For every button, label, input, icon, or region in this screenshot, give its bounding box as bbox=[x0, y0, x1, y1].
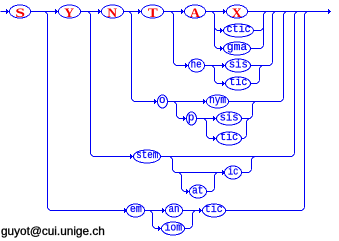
svg-text:o: o bbox=[159, 95, 165, 107]
svg-text:ic: ic bbox=[228, 167, 239, 179]
svg-text:iom: iom bbox=[165, 223, 183, 235]
svg-text:sis: sis bbox=[220, 113, 239, 125]
svg-text:he: he bbox=[191, 60, 202, 72]
svg-text:tic: tic bbox=[220, 132, 238, 144]
svg-text:an: an bbox=[169, 204, 180, 216]
svg-text:stem: stem bbox=[136, 150, 158, 162]
svg-text:S: S bbox=[15, 6, 25, 20]
svg-text:X: X bbox=[232, 6, 242, 20]
svg-text:A: A bbox=[190, 6, 200, 20]
svg-text:gma: gma bbox=[227, 42, 248, 54]
svg-text:at: at bbox=[192, 185, 204, 197]
svg-text:nym: nym bbox=[209, 95, 226, 107]
svg-text:T: T bbox=[148, 6, 159, 20]
svg-text:ctic: ctic bbox=[226, 24, 250, 36]
svg-text:sis: sis bbox=[229, 60, 248, 72]
svg-text:N: N bbox=[107, 6, 117, 20]
svg-text:Y: Y bbox=[64, 6, 74, 20]
svg-text:tic: tic bbox=[229, 77, 247, 89]
svg-text:tic: tic bbox=[205, 204, 223, 216]
svg-text:guyot@cui.unige.ch: guyot@cui.unige.ch bbox=[1, 224, 105, 238]
svg-text:em: em bbox=[130, 204, 142, 216]
svg-text:p: p bbox=[188, 113, 194, 125]
